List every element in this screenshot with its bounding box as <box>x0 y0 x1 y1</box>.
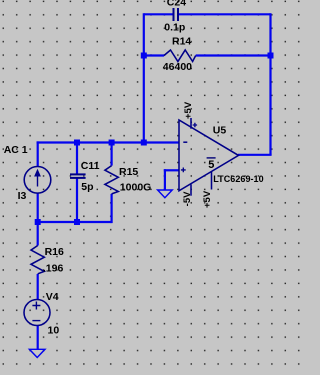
svg-text:5: 5 <box>208 159 214 171</box>
svg-text:C11: C11 <box>81 160 100 172</box>
svg-text:R14: R14 <box>172 36 191 48</box>
svg-text:5p: 5p <box>81 181 93 193</box>
svg-text:I3: I3 <box>18 190 27 202</box>
svg-text:10: 10 <box>48 325 60 337</box>
svg-text:U5: U5 <box>213 125 227 137</box>
svg-text:+5V: +5V <box>202 190 213 208</box>
svg-text:R15: R15 <box>119 166 138 178</box>
svg-text:C24: C24 <box>167 0 186 9</box>
svg-text:1000G: 1000G <box>120 181 152 193</box>
svg-text:-5V: -5V <box>182 191 193 206</box>
svg-text:R16: R16 <box>45 246 64 258</box>
svg-text:46400: 46400 <box>163 61 192 73</box>
svg-text:AC 1: AC 1 <box>4 144 28 156</box>
svg-text:V4: V4 <box>46 291 59 303</box>
svg-text:LTC6269-10: LTC6269-10 <box>213 174 263 184</box>
svg-text:0.1p: 0.1p <box>164 21 185 33</box>
svg-text:+5V: +5V <box>183 101 194 119</box>
svg-text:.196: .196 <box>43 263 64 275</box>
